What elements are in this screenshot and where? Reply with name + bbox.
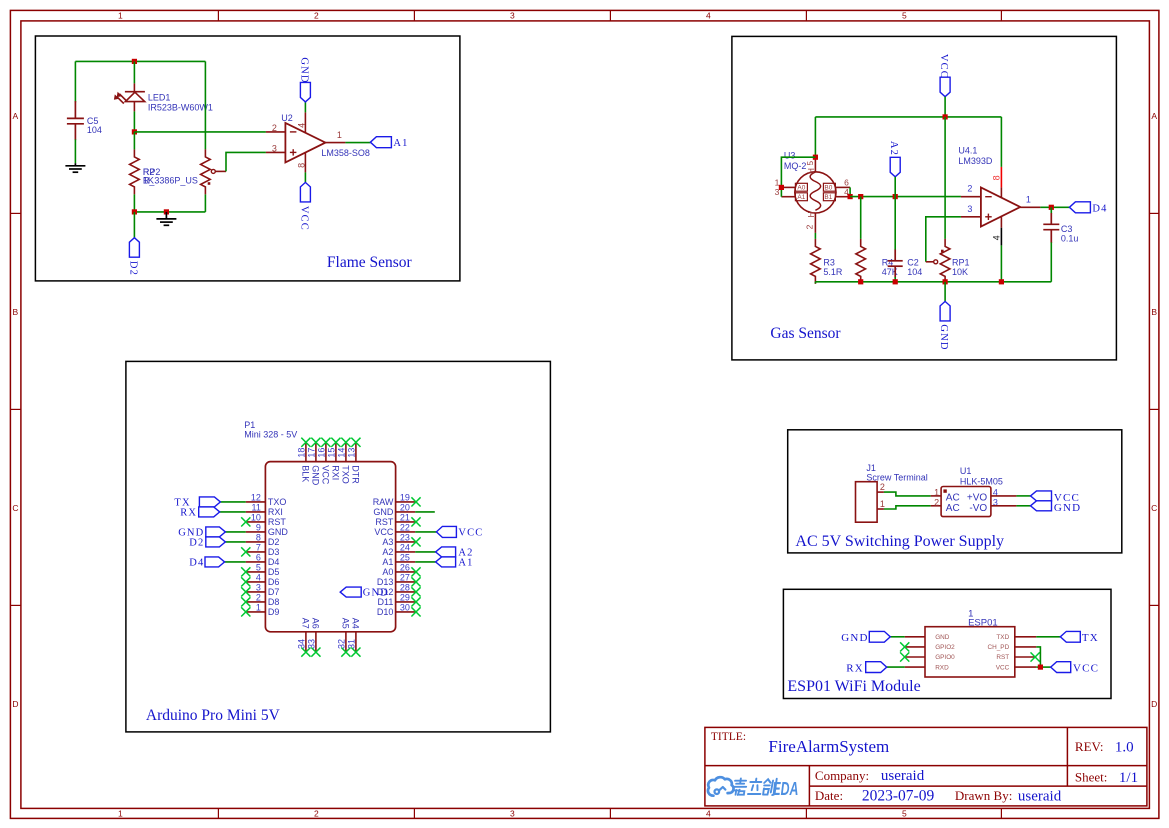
svg-text:BLK: BLK [301, 465, 311, 482]
svg-text:1: 1 [934, 487, 939, 497]
pin 32 A5 (bottom) [345, 632, 347, 652]
svg-text:3: 3 [272, 143, 277, 153]
svg-text:CH_PD: CH_PD [988, 644, 1010, 651]
wire RP2 wiper to U2 pin 3 [226, 152, 266, 171]
port VCC (esp) [1051, 662, 1071, 673]
pin 1 D9 (left) [246, 611, 266, 613]
svg-text:23: 23 [400, 533, 410, 543]
capacitor C3 [1050, 207, 1052, 213]
wire U3 pin2 to R3 [814, 233, 816, 239]
svg-text:D8: D8 [268, 597, 280, 607]
pin 30 D10 (right) [396, 611, 416, 613]
block frame: Gas Sensor [732, 36, 1117, 360]
svg-text:24: 24 [400, 543, 410, 553]
svg-text:D2: D2 [189, 537, 204, 548]
svg-text:31: 31 [347, 639, 357, 649]
ESP01 pin TXD (right) [1015, 636, 1037, 638]
port RX [199, 507, 220, 517]
junction top rail / LED1 [132, 59, 137, 64]
svg-text:A3: A3 [382, 537, 393, 547]
svg-text:useraid: useraid [881, 768, 925, 784]
U1 pin 1 stub [931, 495, 941, 497]
svg-text:GND: GND [935, 634, 950, 641]
junction output / C3 [1049, 205, 1054, 210]
svg-text:LM393D: LM393D [958, 156, 993, 166]
svg-text:3: 3 [510, 11, 515, 21]
svg-text:17: 17 [307, 448, 317, 458]
svg-text:26: 26 [400, 563, 410, 573]
svg-text:DTR: DTR [351, 465, 361, 484]
block frame: ESP01 WiFi Module [783, 589, 1111, 698]
svg-text:B0: B0 [824, 185, 832, 192]
wire RX [220, 511, 246, 513]
pin 8 D2 (left) [246, 541, 266, 543]
svg-text:D5: D5 [268, 567, 280, 577]
svg-text:U3: U3 [784, 151, 796, 161]
resistor R4 [856, 239, 866, 284]
svg-text:Company:: Company: [815, 768, 869, 783]
svg-text:D: D [1151, 699, 1157, 709]
wire J1.1 to U1.2 [884, 506, 931, 509]
svg-text:LED1: LED1 [148, 92, 171, 102]
svg-text:104: 104 [907, 267, 922, 277]
svg-text:GND: GND [1054, 502, 1081, 514]
svg-text:Date:: Date: [815, 788, 843, 803]
svg-text:RXI: RXI [331, 465, 341, 480]
pin 10 RST (left) [246, 521, 266, 523]
wire right rail down to U4 pin 8 [1000, 117, 1002, 167]
potentiometer RP1 [940, 239, 950, 284]
U4 pin 3 stub [961, 216, 981, 218]
svg-text:1/1: 1/1 [1119, 770, 1138, 786]
wire TX [220, 501, 245, 503]
pin 2 D8 (left) [246, 601, 266, 603]
svg-text:TXO: TXO [268, 497, 287, 507]
wire to C5 [74, 61, 76, 102]
svg-text:D9: D9 [268, 607, 280, 617]
svg-text:27: 27 [400, 573, 410, 583]
svg-text:D2: D2 [128, 261, 139, 276]
no-connect RST [1031, 652, 1040, 661]
wire A2 port down [894, 177, 896, 197]
svg-text:REV:: REV: [1075, 739, 1104, 754]
U4 pin 4 (black) [1000, 217, 1002, 228]
svg-text:RST: RST [268, 517, 287, 527]
svg-text:10K: 10K [952, 267, 968, 277]
junction U3 pin 1 [779, 185, 784, 190]
svg-text:A1: A1 [797, 194, 805, 201]
wire U3 top pin to rail [814, 117, 816, 157]
svg-text:16: 16 [317, 448, 327, 458]
svg-text:VCC: VCC [458, 527, 483, 538]
svg-text:A4: A4 [351, 618, 361, 629]
junction R4 branch [858, 194, 863, 199]
wire D4 (pin 6) [225, 561, 246, 563]
junction R4 / rail [858, 279, 863, 284]
svg-text:-VO: -VO [969, 503, 987, 514]
svg-text:A1: A1 [458, 558, 473, 569]
svg-text:9: 9 [256, 523, 261, 533]
svg-text:2: 2 [934, 497, 939, 507]
no-connect GPIO0 [900, 652, 909, 661]
svg-text:D4: D4 [268, 557, 280, 567]
svg-text:14: 14 [337, 448, 347, 458]
svg-text:B: B [13, 307, 19, 317]
svg-text:useraid: useraid [1018, 788, 1062, 804]
svg-text:VCC: VCC [1073, 662, 1099, 674]
svg-text:2: 2 [804, 224, 814, 229]
wire node to U2 pin 2 [134, 131, 266, 133]
svg-text:19: 19 [400, 493, 410, 503]
svg-text:1: 1 [118, 11, 123, 21]
title block [705, 727, 1147, 806]
pin 31 A4 (bottom) [355, 632, 357, 652]
svg-text:33: 33 [307, 639, 317, 649]
svg-text:VCC: VCC [321, 465, 331, 485]
no-connect GPIO2 [900, 642, 909, 651]
wire LED1 to node [133, 111, 135, 131]
pin 2 stub U2 [266, 131, 286, 133]
block frame: Arduino Pro Mini 5V [126, 361, 551, 732]
svg-text:D10: D10 [377, 607, 394, 617]
svg-text:U1: U1 [960, 466, 972, 476]
svg-text:GND: GND [311, 465, 321, 486]
wire mid (pin2 net) [850, 196, 961, 198]
wire VCC port to top rail [944, 97, 946, 117]
svg-text:FireAlarmSystem: FireAlarmSystem [768, 737, 889, 756]
pin 25 A1 (right) [396, 561, 416, 563]
pin 27 D13 (right) [396, 581, 416, 583]
U4 pin 2 stub [961, 196, 981, 198]
pin 17 GND (top) [315, 442, 317, 461]
svg-text:0.1u: 0.1u [1061, 234, 1079, 244]
svg-text:HLK-5M05: HLK-5M05 [960, 476, 1003, 486]
svg-text:22: 22 [400, 523, 410, 533]
port RX (esp) [866, 662, 887, 673]
svg-text:D2: D2 [268, 537, 280, 547]
svg-text:GND: GND [373, 507, 394, 517]
svg-text:GND: GND [298, 57, 309, 83]
port D4 (pin 6) [205, 557, 225, 567]
ground (C5) [65, 163, 85, 172]
U4 output wire [1020, 206, 1040, 208]
pin 23 A3 (right) [396, 541, 416, 543]
resistor R2 [130, 149, 140, 194]
svg-text:Arduino Pro Mini 5V: Arduino Pro Mini 5V [146, 707, 281, 724]
ground (bottom rail) [156, 212, 176, 225]
block frame: Flame Sensor [35, 36, 460, 281]
J1 pin 1 [877, 508, 884, 510]
capacitor C2 [894, 197, 896, 250]
svg-text:5: 5 [806, 160, 815, 165]
pin 13 DTR (top) [355, 442, 357, 461]
svg-text:4: 4 [992, 235, 1002, 240]
svg-text:TITLE:: TITLE: [711, 731, 746, 743]
svg-text:5.1R: 5.1R [823, 267, 843, 277]
U2 pin 8 wire to VCC port [304, 153, 306, 173]
svg-text:20: 20 [400, 503, 410, 513]
svg-text:32: 32 [337, 639, 347, 649]
svg-text:10: 10 [251, 513, 261, 523]
pin 12 TXO (left) [246, 501, 266, 503]
svg-text:1: 1 [1026, 195, 1031, 205]
wire top rail [815, 116, 1001, 118]
svg-text:U4.1: U4.1 [958, 146, 977, 156]
port D4 [1069, 202, 1090, 213]
port GND (psu) [1031, 501, 1052, 511]
svg-text:GND: GND [363, 588, 389, 599]
svg-text:LM358-SO8: LM358-SO8 [321, 148, 370, 158]
pin 6 D4 (left) [246, 561, 266, 563]
svg-text:RST: RST [996, 654, 1009, 661]
junction VCC / top rail [943, 114, 948, 119]
svg-text:4: 4 [706, 809, 711, 819]
pin 11 RXI (left) [246, 511, 266, 513]
wire C3 to bottom rail [1050, 242, 1052, 281]
svg-text:5: 5 [902, 809, 907, 819]
svg-text:2023-07-09: 2023-07-09 [862, 787, 935, 804]
svg-text:D3: D3 [268, 547, 280, 557]
svg-text:2: 2 [967, 184, 972, 194]
svg-text:EDA: EDA [772, 779, 798, 799]
svg-text:1: 1 [118, 809, 123, 819]
capacitor C5 [67, 101, 84, 140]
pin 22 VCC (right) [396, 531, 416, 533]
port VCC (psu) [1031, 491, 1052, 501]
wire VCC (pin 22) [415, 531, 436, 533]
svg-text:6: 6 [256, 553, 261, 563]
svg-text:U2: U2 [281, 113, 293, 123]
svg-text:A: A [1151, 111, 1157, 121]
U2 output pin 1 wire [325, 142, 345, 144]
svg-text:8: 8 [256, 533, 261, 543]
port D2 (pin 8) [206, 537, 226, 547]
port GND (U2 pin 4) [300, 82, 310, 102]
svg-text:D: D [12, 699, 18, 709]
svg-text:A2: A2 [382, 547, 393, 557]
resistor R3 [811, 239, 821, 284]
ESP01 pin GPIO2 (left) [905, 646, 925, 648]
port A2 [890, 157, 900, 177]
svg-text:C: C [1151, 503, 1157, 513]
port A1 [370, 137, 391, 148]
module ESP01 [925, 627, 1015, 677]
svg-text:RAW: RAW [373, 497, 394, 507]
junction U3 top [813, 155, 818, 160]
svg-text:Gas Sensor: Gas Sensor [770, 325, 841, 342]
wire top rail to LED1 [133, 61, 135, 83]
port VCC (gas) [940, 77, 950, 97]
svg-text:29: 29 [400, 593, 410, 603]
svg-text:1: 1 [880, 499, 885, 509]
wire U3 pin 6 to node [849, 187, 851, 196]
ESP01 pin VCC (right) [1015, 666, 1037, 668]
wire RP2 bottom [204, 194, 206, 212]
svg-text:VCC: VCC [938, 54, 949, 79]
svg-text:RX: RX [846, 662, 864, 674]
svg-text:TX: TX [1082, 632, 1099, 644]
wire pin 3 to RP1 wiper [926, 217, 961, 262]
pin 5 D5 (left) [246, 571, 266, 573]
port A1 (pin 25) [436, 557, 456, 567]
svg-text:D13: D13 [377, 577, 394, 587]
svg-text:VCC: VCC [374, 527, 394, 537]
svg-text:B: B [1151, 307, 1157, 317]
U1 pin 2 stub [931, 505, 941, 507]
wire pin 4 down to bottom rail [1000, 245, 1002, 281]
U2 pin 4 wire to GND port [304, 112, 306, 132]
svg-text:A0: A0 [797, 185, 805, 192]
svg-text:28: 28 [400, 583, 410, 593]
port VCC (pin 22) [436, 526, 456, 537]
svg-text:A5: A5 [341, 618, 351, 629]
port GND (floating, D12 row) [340, 587, 361, 597]
svg-text:GND: GND [841, 632, 868, 644]
ESP01 pin RXD (left) [905, 666, 925, 668]
svg-text:30: 30 [400, 603, 410, 613]
pin 18 BLK (top) [305, 442, 307, 461]
wire bottom rail [134, 211, 205, 213]
wire R3 to rail [814, 282, 816, 284]
svg-text:11: 11 [252, 503, 261, 513]
wire GND (esp) [890, 636, 904, 638]
RP1 wiper [926, 261, 934, 263]
ESP01 pin CH_PD (right) [1015, 646, 1037, 648]
potentiometer RP2 [201, 149, 211, 194]
svg-text:13: 13 [347, 448, 357, 458]
pin 24 A2 (right) [396, 551, 416, 553]
svg-text:3: 3 [256, 583, 261, 593]
port D2 [129, 238, 139, 257]
junction inverting input node [132, 129, 137, 134]
svg-text:D7: D7 [268, 587, 280, 597]
svg-text:2: 2 [272, 123, 277, 133]
svg-text:GPIO0: GPIO0 [935, 654, 955, 661]
svg-text:H: H [807, 168, 816, 174]
wire C5 to ground [74, 139, 76, 163]
svg-text:VCC: VCC [996, 664, 1010, 671]
wire J1.2 to U1.1 [884, 492, 931, 496]
svg-text:GND: GND [268, 527, 289, 537]
pin 3 D7 (left) [246, 591, 266, 593]
svg-text:1.0: 1.0 [1115, 739, 1134, 755]
svg-text:A0: A0 [382, 567, 393, 577]
junction VCC (esp) [1038, 665, 1043, 670]
wire bottom rail (gas) [815, 281, 1051, 283]
module U1 HLK-5M05 [941, 487, 991, 517]
svg-text:TXD: TXD [996, 634, 1009, 641]
svg-text:5: 5 [256, 563, 261, 573]
wire right branch from top rail [204, 61, 206, 149]
wire to port D2 [133, 212, 135, 238]
wire A2 (pin 24) [415, 551, 435, 553]
svg-text:A: A [13, 111, 19, 121]
svg-text:3: 3 [967, 204, 972, 214]
wire TX (esp) [1036, 636, 1060, 638]
port TX [199, 497, 220, 507]
svg-text:18: 18 [297, 448, 307, 458]
svg-text:C3: C3 [1061, 224, 1073, 234]
junction C2 / rail [893, 279, 898, 284]
U1 pin 4 wire [991, 495, 1017, 497]
IC P1 body [265, 462, 395, 632]
op-amp U2 [285, 123, 325, 162]
svg-text:Flame Sensor: Flame Sensor [327, 254, 413, 271]
junction pin4 / rail [999, 279, 1004, 284]
pin 29 D11 (right) [396, 601, 416, 603]
svg-text:12: 12 [251, 493, 261, 503]
svg-text:GND: GND [938, 324, 949, 350]
svg-text:VCC: VCC [298, 206, 309, 231]
svg-text:Drawn By:: Drawn By: [955, 788, 1012, 803]
U1 pin 3 wire [991, 505, 1017, 507]
svg-text:A1: A1 [393, 138, 408, 149]
svg-text:ESP01 WiFi Module: ESP01 WiFi Module [787, 678, 920, 695]
svg-text:ESP01: ESP01 [968, 618, 998, 629]
logo JLC EDA [708, 777, 734, 795]
pin 26 A0 (right) [396, 571, 416, 573]
wire A1 (pin 25) [415, 561, 435, 563]
svg-text:MQ-2: MQ-2 [784, 161, 807, 171]
svg-text:1K: 1K [143, 176, 154, 186]
svg-text:AC 5V Switching Power Supply: AC 5V Switching Power Supply [795, 533, 1004, 550]
svg-text:3: 3 [510, 809, 515, 819]
svg-text:6: 6 [844, 178, 849, 188]
port GND (pin 9) [206, 527, 226, 537]
svg-text:D4: D4 [1092, 203, 1107, 214]
wire VCC (esp) [1036, 666, 1050, 668]
svg-text:1: 1 [337, 130, 342, 140]
svg-text:2: 2 [314, 11, 319, 21]
ESP01 pin GPIO0 (left) [905, 656, 925, 658]
junction RP1 / GND / rail [943, 279, 948, 284]
svg-text:1: 1 [256, 603, 261, 613]
J1 pin 2 [877, 491, 884, 493]
wire to GND port (gas) [944, 282, 946, 302]
block frame: AC 5V Switching Power Supply [788, 430, 1122, 553]
svg-text:25: 25 [400, 553, 410, 563]
svg-text:A7: A7 [301, 618, 311, 629]
wire VCC top rail [75, 60, 205, 62]
sensor U3 MQ-2 [781, 157, 850, 233]
wire R4 top [860, 197, 862, 239]
svg-text:104: 104 [87, 125, 102, 135]
svg-text:RXD: RXD [935, 664, 949, 671]
port TX (esp) [1060, 631, 1080, 642]
wire elbow to U3 left pins [781, 157, 815, 197]
svg-text:34: 34 [297, 639, 307, 649]
wire CH_PD to VCC net [1036, 647, 1040, 667]
svg-text:J1: J1 [866, 463, 876, 473]
pin 21 RST (right) [396, 521, 416, 523]
svg-text:H: H [807, 211, 816, 217]
svg-text:2: 2 [314, 809, 319, 819]
port A2 (pin 24) [436, 547, 456, 557]
wire D2 (pin 8) [225, 541, 245, 543]
svg-text:GPIO2: GPIO2 [935, 644, 955, 651]
svg-text:RP1: RP1 [952, 258, 970, 268]
svg-text:TXO: TXO [341, 465, 351, 484]
op-amp U4.1 [981, 187, 1020, 226]
pin 28 D12 (right) [396, 591, 416, 593]
svg-text:P1: P1 [244, 420, 255, 430]
junction A2 / C2 branch [893, 194, 898, 199]
svg-text:IR523B-W60W1: IR523B-W60W1 [148, 102, 213, 112]
svg-text:4: 4 [256, 573, 261, 583]
svg-text:4: 4 [706, 11, 711, 21]
pin 34 A7 (bottom) [305, 632, 307, 652]
connector J1 [856, 482, 878, 523]
